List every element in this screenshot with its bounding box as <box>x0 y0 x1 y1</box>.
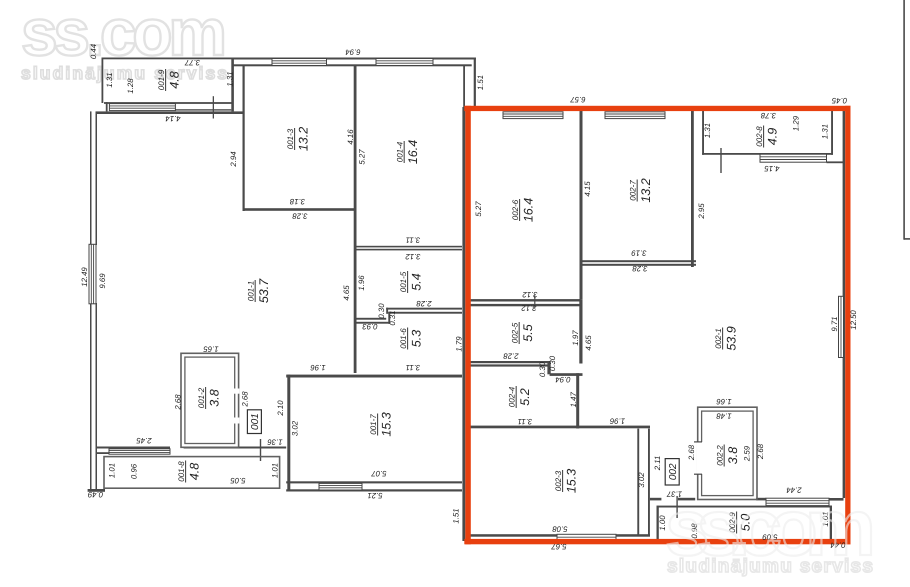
svg-text:0.44: 0.44 <box>89 43 98 59</box>
svg-text:3.8: 3.8 <box>208 389 222 406</box>
svg-text:1.66: 1.66 <box>716 397 732 406</box>
svg-text:53.9: 53.9 <box>725 326 739 350</box>
svg-text:3.18: 3.18 <box>289 197 305 206</box>
svg-text:1.31: 1.31 <box>821 124 830 139</box>
svg-text:001-8: 001-8 <box>177 461 186 482</box>
svg-text:4.65: 4.65 <box>342 285 351 301</box>
svg-text:1.31: 1.31 <box>105 72 114 87</box>
svg-text:1.31: 1.31 <box>703 123 712 138</box>
svg-text:4.14: 4.14 <box>165 114 181 123</box>
svg-text:4.65: 4.65 <box>584 335 593 351</box>
svg-text:001-5: 001-5 <box>399 271 408 292</box>
svg-text:1.51: 1.51 <box>476 75 485 90</box>
svg-text:15.3: 15.3 <box>380 412 394 436</box>
svg-text:0.30: 0.30 <box>538 361 547 377</box>
svg-text:002-4: 002-4 <box>508 386 517 407</box>
svg-text:0.30: 0.30 <box>377 303 386 319</box>
svg-text:002-5: 002-5 <box>511 322 520 343</box>
svg-text:002-6: 002-6 <box>511 199 520 220</box>
svg-text:53.7: 53.7 <box>257 278 271 303</box>
svg-text:2.68: 2.68 <box>756 443 765 460</box>
svg-text:2.28: 2.28 <box>503 352 520 361</box>
svg-text:9.69: 9.69 <box>98 273 107 289</box>
svg-text:16.4: 16.4 <box>406 140 420 164</box>
svg-text:3.12: 3.12 <box>405 252 421 261</box>
svg-text:001-7: 001-7 <box>369 414 378 435</box>
svg-text:002-2: 002-2 <box>716 445 725 466</box>
svg-text:5.4: 5.4 <box>410 273 424 290</box>
svg-text:1.97: 1.97 <box>571 330 580 346</box>
svg-text:4.9: 4.9 <box>766 128 780 145</box>
svg-text:001-4: 001-4 <box>396 141 405 162</box>
svg-text:1.96: 1.96 <box>609 417 625 426</box>
svg-text:5.27: 5.27 <box>358 149 367 165</box>
svg-text:1.47: 1.47 <box>569 392 578 408</box>
svg-text:002-8: 002-8 <box>755 126 764 147</box>
svg-text:2.68: 2.68 <box>241 391 250 408</box>
svg-text:1.29: 1.29 <box>792 115 801 131</box>
svg-text:2.45: 2.45 <box>136 436 153 445</box>
svg-text:2.28: 2.28 <box>416 299 433 308</box>
svg-text:9.71: 9.71 <box>830 316 839 331</box>
svg-text:3.28: 3.28 <box>292 212 308 221</box>
svg-text:0.30: 0.30 <box>548 355 557 371</box>
svg-text:12.49: 12.49 <box>80 267 89 287</box>
svg-text:3.77: 3.77 <box>184 58 200 67</box>
svg-text:4.16: 4.16 <box>346 129 355 145</box>
svg-text:5.2: 5.2 <box>518 388 532 405</box>
svg-text:0.96: 0.96 <box>130 463 139 479</box>
svg-text:4.15: 4.15 <box>764 164 780 173</box>
svg-text:4.8: 4.8 <box>188 463 202 480</box>
svg-text:5.07: 5.07 <box>371 469 387 478</box>
svg-text:001-2: 001-2 <box>197 387 206 408</box>
svg-text:001-3: 001-3 <box>286 128 295 149</box>
svg-text:2.11: 2.11 <box>653 456 662 472</box>
svg-text:2.95: 2.95 <box>697 203 706 220</box>
svg-text:3.11: 3.11 <box>406 236 421 245</box>
svg-text:4.15: 4.15 <box>583 181 592 197</box>
svg-text:2.94: 2.94 <box>229 151 238 168</box>
svg-text:5.05: 5.05 <box>230 476 246 485</box>
svg-text:001-9: 001-9 <box>157 69 166 90</box>
svg-text:0.94: 0.94 <box>555 375 571 384</box>
svg-text:1.51: 1.51 <box>452 508 461 523</box>
svg-text:2.68: 2.68 <box>687 444 696 461</box>
svg-text:13.2: 13.2 <box>297 127 311 151</box>
svg-text:2.10: 2.10 <box>276 400 285 417</box>
svg-text:001-1: 001-1 <box>247 281 256 301</box>
svg-text:sludinājumu serviss: sludinājumu serviss <box>667 556 873 577</box>
svg-text:3.02: 3.02 <box>637 472 646 488</box>
svg-text:3.19: 3.19 <box>631 249 647 258</box>
svg-text:1.28: 1.28 <box>126 78 135 94</box>
svg-text:1.36: 1.36 <box>267 438 283 447</box>
svg-text:12.50: 12.50 <box>849 310 858 330</box>
svg-text:002: 002 <box>668 463 679 480</box>
svg-text:16.4: 16.4 <box>522 198 536 222</box>
svg-text:002-1: 002-1 <box>714 328 723 348</box>
svg-text:1.96: 1.96 <box>357 275 366 291</box>
svg-text:15.3: 15.3 <box>565 469 579 493</box>
svg-text:0.31: 0.31 <box>388 310 397 325</box>
svg-text:001: 001 <box>250 413 261 430</box>
svg-text:3.12: 3.12 <box>521 304 537 313</box>
svg-text:0.45: 0.45 <box>831 96 847 105</box>
svg-text:5.27: 5.27 <box>474 201 483 217</box>
svg-text:5.67: 5.67 <box>551 542 567 551</box>
svg-text:13.2: 13.2 <box>639 178 653 202</box>
svg-text:1.01: 1.01 <box>108 463 117 478</box>
svg-text:6.57: 6.57 <box>570 95 586 104</box>
svg-text:1.01: 1.01 <box>271 463 280 478</box>
svg-text:2.68: 2.68 <box>174 394 183 411</box>
svg-text:0.49: 0.49 <box>87 490 103 499</box>
svg-text:1.79: 1.79 <box>455 336 464 352</box>
svg-text:5.21: 5.21 <box>367 491 382 500</box>
svg-text:5.3: 5.3 <box>410 330 424 347</box>
svg-text:3.8: 3.8 <box>726 447 740 464</box>
svg-text:2.59: 2.59 <box>743 445 752 462</box>
svg-text:4.8: 4.8 <box>168 71 182 88</box>
svg-text:3.78: 3.78 <box>760 111 776 120</box>
svg-text:001-6: 001-6 <box>399 328 408 349</box>
svg-text:5.5: 5.5 <box>521 324 535 341</box>
svg-text:3.28: 3.28 <box>632 264 648 273</box>
svg-text:3.11: 3.11 <box>518 417 533 426</box>
svg-text:1.48: 1.48 <box>716 412 732 421</box>
svg-text:3.12: 3.12 <box>522 290 538 299</box>
svg-text:1.65: 1.65 <box>203 345 219 354</box>
svg-text:002-3: 002-3 <box>554 470 563 491</box>
svg-text:3.11: 3.11 <box>406 363 421 372</box>
svg-text:3.02: 3.02 <box>291 420 300 436</box>
svg-text:0.93: 0.93 <box>362 322 378 331</box>
svg-text:6.94: 6.94 <box>345 48 361 57</box>
svg-text:5.08: 5.08 <box>552 525 568 534</box>
svg-text:002-7: 002-7 <box>629 180 638 201</box>
svg-text:1.31: 1.31 <box>226 71 235 86</box>
svg-text:1.96: 1.96 <box>310 363 326 372</box>
